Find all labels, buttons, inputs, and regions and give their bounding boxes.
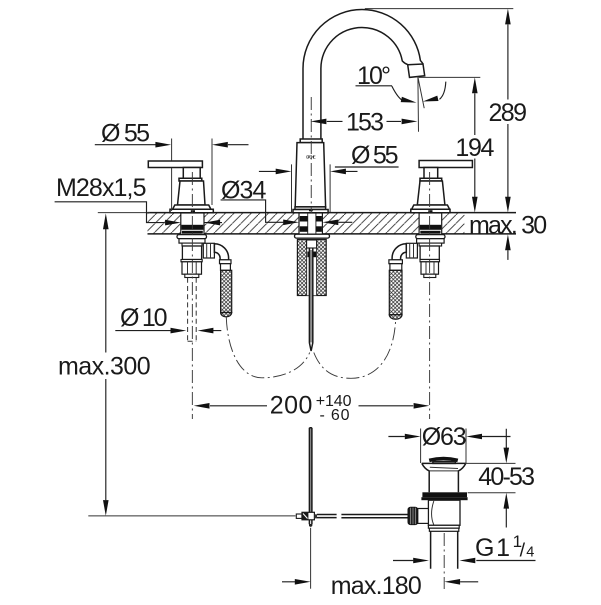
svg-text:max.300: max.300 — [58, 352, 151, 380]
svg-text:max. 30: max. 30 — [469, 211, 547, 239]
right valve mounting washer — [416, 235, 445, 239]
spout threaded shank (braided texture) — [297, 239, 326, 295]
right hose collar fittings — [389, 260, 403, 271]
left valve mounting nut — [179, 239, 205, 246]
left valve mounting washer — [177, 235, 207, 239]
right braided hose — [389, 270, 402, 319]
wire: deck-top extension line left — [98, 212, 150, 214]
dimension 153 — [311, 109, 418, 137]
drain body — [428, 500, 460, 525]
dimension Ø63 — [388, 423, 510, 463]
svg-text:/: / — [520, 540, 526, 562]
right valve lower body — [420, 246, 439, 260]
svg-text:194: 194 — [455, 134, 494, 162]
svg-text:Ø 55: Ø 55 — [351, 142, 399, 170]
left hose curve (dash-dot) — [226, 318, 309, 378]
drain plug cap — [429, 459, 458, 464]
dimension 289 — [365, 9, 527, 213]
dimension Ø55 center — [259, 142, 399, 213]
svg-text:40-53: 40-53 — [478, 463, 535, 491]
dimension Ø55 left — [95, 120, 249, 212]
drain knurled knob — [408, 507, 418, 524]
node: right valve centerline — [429, 172, 431, 419]
right valve body — [417, 181, 445, 205]
right hose curve (dash-dot) — [314, 319, 396, 379]
deck cross-section hatched band — [148, 213, 517, 234]
svg-text:289: 289 — [489, 99, 528, 127]
left braided hose — [221, 270, 232, 317]
svg-text:G1: G1 — [475, 534, 510, 562]
dimension Ø10 — [115, 304, 221, 333]
node: left valve centerline — [191, 172, 193, 419]
drain tailpipe — [431, 531, 458, 569]
left valve shank through deck — [181, 213, 204, 235]
svg-text:- 60: - 60 — [320, 407, 350, 424]
spout body column — [293, 139, 328, 213]
dimension M28x1,5 — [55, 174, 222, 225]
svg-text:GROHE: GROHE — [306, 155, 316, 160]
left valve base black dash — [191, 210, 195, 212]
left valve elbow fitting — [203, 243, 214, 258]
dimension max.180 — [282, 572, 478, 600]
right valve elbow fitting — [406, 243, 417, 258]
dimension G1 1/4 — [393, 532, 536, 563]
left valve body — [178, 181, 206, 205]
svg-text:153: 153 — [346, 109, 384, 137]
left valve base plate — [170, 209, 213, 213]
right valve lever handle — [419, 161, 472, 168]
right valve mounting nut — [417, 239, 445, 246]
svg-text:4: 4 — [526, 545, 534, 561]
svg-text:Ø 10: Ø 10 — [120, 304, 168, 332]
right valve base plate — [411, 209, 450, 213]
spout base black dash — [309, 209, 313, 211]
right valve flange — [412, 205, 450, 209]
svg-text:Ø63: Ø63 — [422, 423, 467, 451]
left valve lever handle — [148, 161, 202, 168]
dimension 10 degrees — [356, 62, 446, 132]
left valve hidden tailpiece (dashed) — [188, 278, 197, 342]
dimension max.300 — [58, 213, 151, 516]
svg-text:Ø 55: Ø 55 — [101, 120, 150, 148]
left valve lower body — [182, 246, 201, 260]
left valve elbow tube — [214, 244, 228, 260]
dimension 40-53 — [466, 429, 535, 528]
drain pop-up waste: flange — [422, 463, 466, 492]
svg-text:M28x1,5: M28x1,5 — [56, 174, 147, 202]
left valve flange — [173, 205, 211, 209]
right valve elbow tube — [392, 244, 406, 260]
pop-up rod inside shank — [307, 240, 317, 351]
drain side port — [418, 509, 429, 524]
drain gasket (black) — [421, 492, 467, 500]
spout gooseneck tube — [303, 10, 423, 143]
svg-text:200: 200 — [270, 392, 313, 420]
dimension 194 — [419, 77, 495, 212]
left hose collar fittings — [220, 260, 232, 271]
right valve shank through deck — [419, 213, 442, 235]
right valve handle hub — [424, 168, 438, 179]
left valve collar — [179, 178, 202, 181]
drain centerline — [443, 533, 445, 589]
dimension 200 +140/-60 — [194, 392, 430, 425]
right valve under-nut adapter — [420, 260, 440, 278]
right valve collar — [420, 178, 442, 181]
dimension max. 30 — [469, 211, 547, 260]
spout mounting washer bar — [295, 234, 330, 238]
left valve handle hub — [183, 168, 200, 179]
wire: max300 bottom extension line — [88, 515, 295, 517]
pop-up rod clamp — [296, 512, 317, 520]
dimension Ø34 — [221, 177, 353, 226]
left valve under-nut adapter — [181, 260, 202, 278]
drain bottom ring — [428, 525, 459, 531]
pop-up rod (exploded below) — [310, 428, 312, 512]
spout shank through deck — [299, 213, 322, 235]
svg-text:max.180: max.180 — [331, 572, 422, 600]
horizontal actuating rod — [317, 515, 408, 518]
node: center spout centerline — [310, 97, 312, 213]
right valve base black dash — [428, 210, 432, 212]
spout aerator tip — [408, 64, 425, 77]
